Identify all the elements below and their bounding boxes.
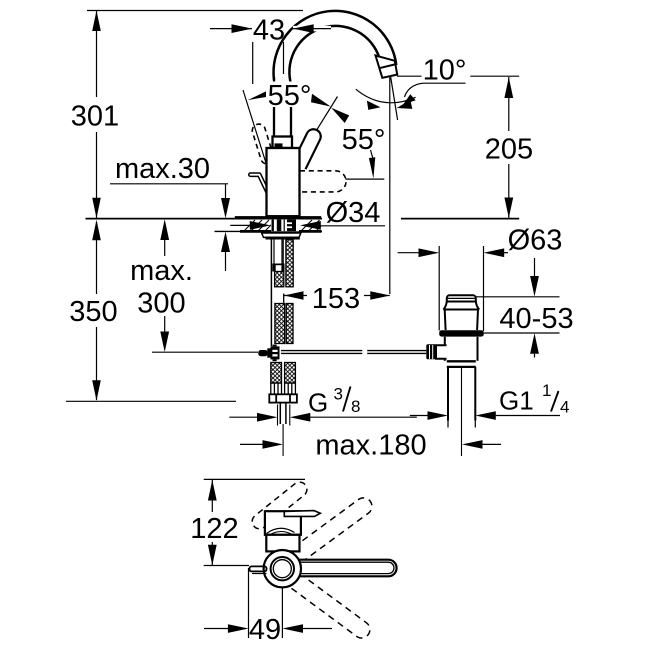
dimension 350	[66, 220, 236, 401]
label G 3/8	[229, 385, 416, 426]
svg-text:max.30: max.30	[115, 153, 210, 185]
dimension diameter 63	[398, 224, 563, 331]
svg-text:max.: max.	[130, 255, 193, 287]
supply hose left edge	[270, 240, 272, 347]
base plate	[235, 216, 321, 219]
top view: dashed spout lower	[292, 575, 370, 638]
svg-text:G: G	[308, 388, 328, 418]
svg-text:40-53: 40-53	[499, 303, 573, 335]
label max.30	[110, 153, 230, 271]
dashed handle right position	[300, 171, 346, 192]
label 10deg	[397, 54, 466, 104]
spout riser pipe	[273, 77, 275, 137]
svg-text:max.180: max.180	[315, 429, 426, 461]
dimension max.300	[130, 219, 258, 352]
top view: lever stub	[250, 566, 267, 571]
spout inner arc	[289, 26, 380, 82]
compression nuts	[271, 383, 296, 394]
pop-up rod	[281, 351, 426, 354]
faucet collar	[273, 137, 293, 149]
svg-text:3: 3	[334, 385, 343, 404]
svg-text:Ø63: Ø63	[508, 224, 563, 256]
top reference line	[87, 10, 303, 12]
top view: handle bar	[284, 511, 320, 517]
shank cross-section	[271, 219, 299, 231]
dimension max.180	[240, 429, 501, 461]
hose end fitting	[258, 345, 279, 362]
dimension 153	[284, 283, 390, 315]
countertop hatching right	[301, 220, 322, 231]
dimension 40-53	[476, 258, 574, 358]
svg-text:300: 300	[137, 287, 185, 319]
dimension 301	[71, 11, 119, 219]
braided hose left mid	[275, 272, 284, 287]
dimension 43 right arrow	[293, 24, 331, 33]
top view: valve body circle	[264, 550, 301, 587]
braided hoses lower	[275, 304, 285, 344]
drain tailpipe	[447, 367, 449, 421]
mounting nut	[262, 233, 301, 240]
svg-text:153: 153	[312, 283, 360, 315]
top view: spout bar	[292, 560, 397, 577]
solid handle	[293, 129, 321, 169]
top view: dashed spout upper	[292, 498, 372, 562]
svg-text:350: 350	[69, 296, 117, 328]
svg-text:1: 1	[542, 381, 551, 400]
label 55deg first	[243, 80, 312, 164]
lever handle	[250, 175, 267, 192]
dimension diameter 34	[230, 197, 385, 230]
dimension 205	[470, 76, 535, 218]
drain flange ring	[439, 330, 484, 336]
svg-text:8: 8	[351, 397, 360, 416]
spout outer arc	[274, 11, 397, 80]
svg-text:122: 122	[190, 513, 238, 545]
svg-text:G1: G1	[499, 386, 534, 416]
label 55deg second	[311, 94, 385, 179]
knurled knob	[426, 344, 436, 359]
dimension 43	[210, 15, 287, 85]
countertop hatching left	[244, 220, 273, 231]
stream vertical reference line	[389, 77, 391, 294]
hose fitting	[272, 264, 284, 272]
drain shoulder	[447, 360, 476, 362]
dashed handle left position	[252, 124, 273, 164]
svg-text:55°: 55°	[268, 80, 312, 112]
svg-text:205: 205	[485, 133, 533, 165]
left supply tube upper	[273, 240, 275, 264]
faucet body	[267, 148, 300, 216]
drain centerline	[461, 368, 463, 456]
svg-text:Ø34: Ø34	[326, 197, 381, 229]
svg-text:301: 301	[71, 101, 119, 133]
dimension 49	[204, 568, 332, 646]
lower shank braided	[271, 363, 282, 384]
top view: dashed handle raised	[252, 482, 307, 529]
countertop bottom line	[215, 230, 323, 232]
G3/8 nut	[269, 394, 297, 402]
svg-text:55°: 55°	[342, 124, 386, 156]
top view: lower body	[266, 535, 299, 552]
svg-text:4: 4	[560, 398, 569, 417]
angle arc 10	[356, 89, 416, 103]
label G1 1/4	[410, 381, 570, 420]
aerator	[376, 56, 398, 78]
svg-text:10°: 10°	[423, 54, 467, 86]
top view: dimension 122	[190, 479, 305, 565]
drain body upper	[444, 310, 447, 331]
drain body lower	[444, 337, 446, 361]
top view: body block	[265, 511, 301, 535]
braided hose right upper	[286, 240, 293, 287]
mounting surface line	[86, 218, 323, 220]
drain pop-up knob	[447, 295, 476, 301]
drain flare	[443, 302, 479, 310]
threaded stud	[279, 403, 281, 424]
svg-text:49: 49	[249, 614, 281, 646]
stream 10-degree line	[391, 77, 398, 121]
drain side tee	[436, 345, 447, 358]
